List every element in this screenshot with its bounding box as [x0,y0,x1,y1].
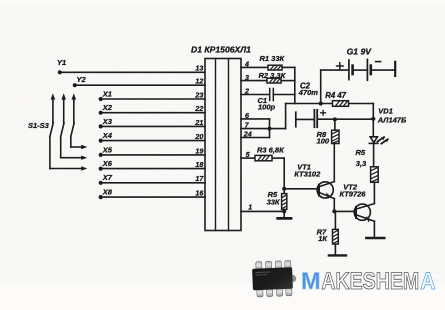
svg-text:G1 9V: G1 9V [347,47,373,57]
svg-text:R2 3,3К: R2 3,3К [259,71,287,80]
svg-text:VD1: VD1 [378,106,393,115]
svg-text:21: 21 [194,119,203,127]
svg-text:100p: 100p [258,103,276,112]
svg-text:R3 6,8К: R3 6,8К [257,145,285,154]
svg-text:1К: 1К [318,234,328,243]
svg-text:16: 16 [195,190,203,198]
svg-text:24: 24 [243,131,252,139]
svg-text:X8: X8 [102,188,113,197]
svg-text:X1: X1 [102,89,112,98]
svg-text:13: 13 [195,65,203,73]
svg-text:18: 18 [195,161,203,169]
svg-text:A: A [420,268,435,295]
svg-text:22: 22 [194,105,203,113]
svg-text:S1-S3: S1-S3 [28,121,50,130]
svg-text:КТ9726: КТ9726 [340,189,367,198]
svg-text:33К: 33К [267,197,281,206]
svg-text:100: 100 [317,136,330,145]
svg-text:2: 2 [244,88,249,96]
svg-text:X4: X4 [102,131,113,140]
svg-text:Y2: Y2 [77,75,87,84]
svg-text:X5: X5 [102,145,113,154]
svg-text:3: 3 [245,74,249,82]
svg-text:3,3: 3,3 [356,159,367,168]
svg-text:X2: X2 [102,103,113,112]
svg-text:R5: R5 [356,148,366,157]
svg-text:Y1: Y1 [57,58,66,67]
svg-text:X3: X3 [102,117,113,126]
svg-text:КТ3102: КТ3102 [294,170,321,179]
svg-text:20: 20 [194,133,203,141]
svg-text:17: 17 [195,175,204,183]
svg-text:19: 19 [195,147,203,155]
svg-text:R1 33К: R1 33К [260,54,286,63]
svg-text:AKESHEM: AKESHEM [321,268,419,295]
svg-text:D1 КР1506ХЛ1: D1 КР1506ХЛ1 [191,45,251,55]
svg-text:470m: 470m [298,88,319,97]
svg-text:X7: X7 [102,173,113,182]
svg-text:4: 4 [244,61,249,69]
svg-text:6: 6 [245,112,249,120]
svg-text:АЛ147Б: АЛ147Б [377,116,407,125]
svg-text:R4 47: R4 47 [325,91,346,100]
svg-text:1: 1 [248,204,252,212]
svg-text:X6: X6 [102,159,113,168]
svg-text:12: 12 [195,78,203,86]
svg-text:23: 23 [194,91,203,99]
svg-text:M: M [301,268,321,295]
